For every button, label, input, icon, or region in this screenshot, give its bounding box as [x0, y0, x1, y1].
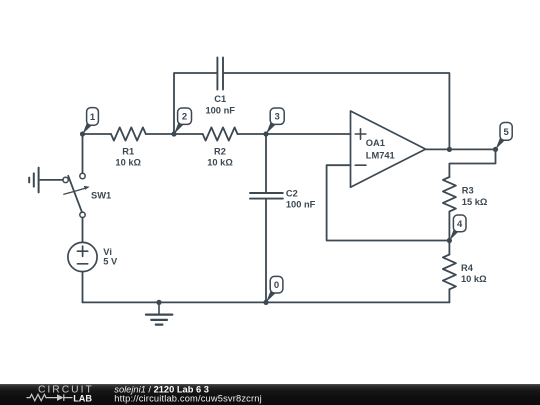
wire top rail left segment from node 2 up and right to C1 — [174, 73, 217, 134]
label R1 value — [115, 147, 141, 168]
svg-text:LAB: LAB — [73, 393, 92, 403]
node flag 3 — [266, 108, 284, 134]
svg-text:LM741: LM741 — [366, 151, 395, 161]
op-amp plus input marker — [355, 129, 366, 139]
svg-text:4: 4 — [457, 219, 463, 230]
capacitor C2 — [250, 193, 283, 199]
svg-text:C1: C1 — [214, 94, 226, 104]
wire inverting input feedback to node 4 — [327, 165, 449, 240]
label R3 value — [462, 185, 488, 207]
wire Vi to bottom rail — [82, 272, 84, 303]
svg-text:1: 1 — [90, 112, 96, 123]
op-amp minus input marker — [355, 164, 366, 166]
label R2 value — [207, 147, 233, 168]
svg-text:15 kΩ: 15 kΩ — [462, 197, 488, 207]
wire node 4 to R4 — [448, 241, 450, 255]
junction C2 rail — [263, 300, 268, 305]
wire C2 down to ground rail — [265, 200, 267, 303]
wire R3 to node 4 — [448, 212, 450, 241]
wire switch lower throw to Vi — [82, 218, 84, 243]
node flag 1 — [83, 108, 99, 134]
switch SW1 — [63, 173, 85, 217]
label Vi 5 V — [103, 247, 118, 267]
svg-text:10 kΩ: 10 kΩ — [461, 274, 487, 284]
node flag 0 — [266, 276, 283, 302]
node flag 4 — [449, 215, 466, 241]
ground — [146, 302, 172, 324]
svg-text:OA1: OA1 — [366, 138, 385, 148]
label C2 value — [286, 188, 316, 209]
voltage source Vi — [68, 242, 97, 271]
wire R1 to node 2 — [146, 133, 203, 135]
node flag 5 — [496, 123, 513, 150]
svg-text:2: 2 — [182, 112, 187, 123]
svg-text:3: 3 — [275, 112, 280, 123]
svg-text:0: 0 — [274, 280, 279, 291]
svg-text:R3: R3 — [462, 185, 474, 195]
wire node 1 down to switch — [82, 134, 84, 173]
Vi plus marker — [78, 246, 88, 256]
svg-text:SW1: SW1 — [91, 191, 111, 201]
svg-text:R4: R4 — [461, 263, 474, 273]
capacitor C1 — [217, 58, 223, 90]
svg-text:100 nF: 100 nF — [286, 200, 316, 210]
wire bottom rail — [83, 301, 450, 303]
resistor R1 — [111, 127, 146, 140]
wire op-amp output to node 5 — [426, 148, 496, 150]
wire top rail right segment from C1 to output junction — [224, 73, 450, 149]
wire switch common to left ground terminal — [40, 179, 63, 181]
junction node 1 — [80, 131, 85, 136]
junction node 2 — [171, 131, 176, 136]
resistor R3 — [443, 177, 456, 212]
CircuitLab logo resistor-diode doodle — [27, 394, 73, 401]
resistor R4 — [443, 255, 456, 290]
svg-text:C2: C2 — [286, 188, 298, 198]
junction node 4 — [447, 238, 452, 243]
switch SW1 actuation arrow — [64, 188, 85, 194]
svg-text:Vi: Vi — [103, 247, 112, 257]
junction ground rail — [156, 300, 161, 305]
junction node 5 — [493, 147, 498, 152]
svg-text:10 kΩ: 10 kΩ — [115, 158, 141, 168]
switch SW1 blade — [68, 176, 82, 213]
junction output — [447, 147, 452, 152]
label R4 value — [461, 263, 487, 284]
wire node 5 jog down-left into R3 — [449, 149, 495, 177]
label C1 value — [205, 94, 235, 115]
svg-text:R1: R1 — [122, 147, 134, 157]
svg-text:5 V: 5 V — [103, 256, 118, 266]
wire node1 to R1 — [83, 133, 112, 135]
junction node 3 — [263, 131, 268, 136]
svg-text:R2: R2 — [214, 147, 226, 157]
svg-text:5: 5 — [503, 127, 509, 138]
Vi minus marker — [78, 263, 88, 265]
ground terminal left of switch — [29, 168, 38, 193]
wire R2 to op-amp non-inverting input — [238, 133, 351, 135]
op-amp U1 triangle — [351, 111, 426, 187]
resistor R2 — [203, 127, 238, 140]
svg-text:10 kΩ: 10 kΩ — [207, 158, 233, 168]
wire R4 down to bottom rail — [448, 289, 450, 302]
wire node 3 down to C2 — [265, 134, 267, 192]
label OA1 LM741 — [366, 138, 395, 161]
svg-text:http://circuitlab.com/cuw5svr8: http://circuitlab.com/cuw5svr8zcrnj — [114, 394, 262, 404]
svg-text:100 nF: 100 nF — [205, 105, 235, 115]
node flag 2 — [174, 108, 192, 134]
